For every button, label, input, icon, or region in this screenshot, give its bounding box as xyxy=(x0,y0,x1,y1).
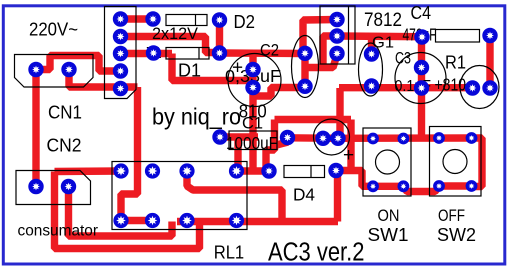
wire relay B1 to B2 xyxy=(121,217,153,224)
wire G1 top pad stub xyxy=(368,38,375,54)
wire D1 right pad to F1 top pad xyxy=(220,49,306,57)
wire D1 area down and right to C2 xyxy=(172,54,253,81)
pad R1-1 xyxy=(465,80,480,95)
svg-text:1000uF: 1000uF xyxy=(226,133,278,153)
wire 7812 pad3 left bar xyxy=(305,55,337,68)
wire consumator pad2 down right and up xyxy=(69,187,173,236)
pad T1-4 xyxy=(113,63,128,78)
pad G1-1 xyxy=(364,46,379,61)
pad C4-2 xyxy=(482,28,497,43)
pad D1-a xyxy=(146,45,161,60)
svg-text:220V~: 220V~ xyxy=(29,20,78,40)
svg-text:AC3 ver.2: AC3 ver.2 xyxy=(268,239,365,267)
pad F1-2 xyxy=(297,79,312,94)
pad C3-1 xyxy=(414,60,429,75)
pad C4-1 xyxy=(414,29,429,44)
capacitor C5 body xyxy=(314,119,350,155)
svg-text:R1: R1 xyxy=(445,53,466,73)
svg-text:ON: ON xyxy=(378,206,400,225)
wire drop to C5 pad xyxy=(336,88,343,138)
pad SW1-1 xyxy=(367,133,379,145)
pad C1-1 xyxy=(212,129,227,144)
svg-text:OFF: OFF xyxy=(438,206,465,225)
pad SW2-2 xyxy=(466,132,478,144)
svg-text:SW2: SW2 xyxy=(437,224,476,245)
pad D2-a xyxy=(145,11,160,26)
pad CN2-2 xyxy=(61,179,76,194)
wire SW2 bottom pads bar xyxy=(439,182,472,189)
capacitor C2 body xyxy=(228,54,281,107)
pad RL1-T3 xyxy=(179,163,194,178)
wire long bar y88 to R1 left pad xyxy=(339,84,473,91)
svg-text:by niq_ro: by niq_ro xyxy=(152,104,241,130)
pad C2-1 xyxy=(245,62,260,77)
wire 7812 pad2 to C4 left pad xyxy=(337,32,420,40)
svg-text:C3: C3 xyxy=(395,49,411,68)
relay RL1 body xyxy=(112,162,247,230)
pad CN1-1 xyxy=(28,62,43,77)
svg-text:D4: D4 xyxy=(293,185,315,205)
resistor R1 body xyxy=(460,66,499,109)
pad 7812-3 xyxy=(329,46,344,61)
wire left elbow down to D4 left pad xyxy=(266,120,275,172)
pad SW2-3 xyxy=(433,180,445,192)
svg-text:C2: C2 xyxy=(260,41,279,60)
pad T1-1 xyxy=(113,11,128,26)
wire SW1 to SW2 bottom link xyxy=(403,186,439,191)
svg-text:C4: C4 xyxy=(411,3,432,23)
wire bottom bar y221.5 xyxy=(177,218,338,225)
wire SW2 right wrap xyxy=(472,138,483,187)
wire SW1 bottom pads bar xyxy=(373,183,403,190)
pad CN1-2 xyxy=(61,62,76,77)
diode D1 body xyxy=(166,48,209,60)
switch SW2 body xyxy=(430,127,482,197)
wire D4 right pad to SW1 lower left pad xyxy=(336,171,373,187)
wire F1 bottom pad left to C2 column xyxy=(253,88,305,97)
pad D4-k xyxy=(328,163,343,178)
pad RL1-B1 xyxy=(113,213,128,228)
pad R1-2 xyxy=(482,80,497,95)
pad RL1-T4 xyxy=(229,163,244,178)
pad C3-2 xyxy=(414,80,429,95)
wire C1 right pad to C5 pads xyxy=(288,134,339,142)
connector CN2/consumator body xyxy=(16,171,91,205)
svg-text:+: + xyxy=(232,58,243,79)
wire CN1 pad1 to T1 pad4 xyxy=(36,56,121,72)
pad D1-k xyxy=(212,45,227,60)
component G1 body xyxy=(359,43,383,96)
wire T1 pad5 column down to relay pad B1 xyxy=(121,87,138,221)
pad SW1-4 xyxy=(398,180,410,192)
wire up to D4 right pad xyxy=(334,171,341,222)
pad SW2-1 xyxy=(433,132,445,144)
wire relay T3 down right and down xyxy=(187,171,282,222)
pad RL1-T1 xyxy=(113,163,128,178)
svg-text:CN2: CN2 xyxy=(47,136,82,156)
wire CN1 pad2 to T1 pad5 and on xyxy=(69,70,138,87)
pad D2-k xyxy=(212,12,227,27)
wire F1 top pad up to 7812 pad1 xyxy=(303,20,337,54)
pad SW1-3 xyxy=(367,180,379,192)
pad RL1-B2 xyxy=(145,213,160,228)
wire C4 left pad down through C3 xyxy=(418,37,425,139)
svg-text:7812: 7812 xyxy=(364,10,402,31)
svg-text:D2: D2 xyxy=(234,12,256,32)
switch SW1 body xyxy=(363,128,411,196)
capacitor C1 body xyxy=(229,131,277,150)
pad C2-2 xyxy=(245,80,260,95)
wire relay T4 to D4 left pad xyxy=(237,167,270,174)
wire long switch row bar y138 xyxy=(338,134,472,142)
pad T1-2 xyxy=(113,29,128,44)
wire T1 pad3 to D1 left pad xyxy=(121,50,173,57)
wire drop to relay T4 xyxy=(234,137,241,171)
fuse F1 body xyxy=(292,36,319,98)
wire 7812 pad2 loop xyxy=(323,36,337,68)
capacitor C4 body xyxy=(436,30,480,43)
pad C5-1 xyxy=(315,131,330,146)
wire bar y171.5 to relay T1 xyxy=(55,167,122,175)
svg-text:+810: +810 xyxy=(435,75,467,95)
wire C1 left pad bar xyxy=(220,133,258,140)
connector CN1 body xyxy=(15,55,94,88)
svg-text:CN1: CN1 xyxy=(48,103,82,123)
wire big bottom loop xyxy=(55,172,200,249)
regulator 7812 body xyxy=(320,6,355,64)
pad 7812-1 xyxy=(329,12,344,27)
wire F1 pad link xyxy=(301,54,308,88)
wire C2 vertical long xyxy=(249,54,256,171)
pad D4-a xyxy=(261,163,276,178)
wire drop x351 xyxy=(347,120,354,171)
wire stub to C1 right pad xyxy=(275,142,289,146)
pad SW2-4 xyxy=(466,180,478,192)
diode D2 body xyxy=(166,15,207,26)
wire C4 right pad down to R1 right pad xyxy=(486,36,493,89)
wire bar y119.5 xyxy=(275,116,352,123)
svg-text:G1: G1 xyxy=(372,35,394,52)
pad T1-5 xyxy=(113,81,128,96)
svg-text:consumator: consumator xyxy=(18,223,99,240)
svg-text:D1: D1 xyxy=(178,61,201,81)
svg-text:RL1: RL1 xyxy=(214,243,245,263)
pad T1-3 xyxy=(113,46,128,61)
pad F1-1 xyxy=(297,46,312,61)
pad RL1-B3 xyxy=(179,213,194,228)
diode D4 body xyxy=(284,166,325,178)
svg-text:+: + xyxy=(343,145,354,166)
svg-text:2x12V: 2x12V xyxy=(152,25,198,43)
svg-text:C1: C1 xyxy=(242,114,263,133)
pad C5-2 xyxy=(330,131,345,146)
pad G1-2 xyxy=(364,78,379,93)
wire D2 right pad to D1 right pad xyxy=(216,20,223,53)
pad 7812-2 xyxy=(329,28,344,43)
capacitor C3 body xyxy=(395,53,446,104)
wire T1 pad1 to D2 left pad xyxy=(121,15,154,22)
pad C1-2 xyxy=(280,130,295,145)
connector T1 body xyxy=(105,7,137,99)
pad RL1-T2 xyxy=(145,163,160,178)
pad RL1-B4 xyxy=(229,213,244,228)
pad SW1-2 xyxy=(398,133,410,145)
wire T1 pad2 to D1 right pad xyxy=(121,37,220,53)
svg-text:SW1: SW1 xyxy=(368,224,409,245)
wire CN1 pad1 to consumator pad1 xyxy=(32,70,39,187)
pad CN2-1 xyxy=(28,179,43,194)
